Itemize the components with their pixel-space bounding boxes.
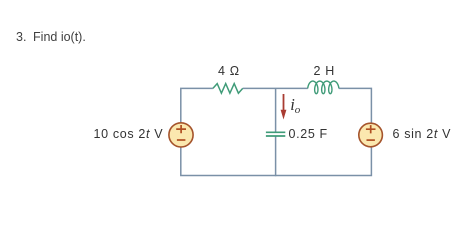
V2 minus sign [367,139,375,141]
capacitor C 0.25F bottom plate [266,135,285,137]
wire: left branch upper + top-left segment to resistor [181,88,213,122]
wire: middle branch upper (top node to capacitor) [275,88,277,131]
label 0.25 F [289,127,328,141]
voltage source V2 circle (6 sin 2t V) [359,123,383,147]
label 4 ohm [218,64,240,78]
V1 minus sign [177,139,186,141]
inductor L 2H coil [308,81,339,94]
capacitor C 0.25F top plate [266,131,285,133]
V2 plus sign [366,125,376,133]
label 2 H [314,64,335,78]
wire: middle branch lower (capacitor to bottom rail) [275,136,277,176]
voltage source V1 circle (10 cos 2t V) [169,123,193,147]
label 10 cos 2t V [94,127,164,141]
current arrow io head [281,110,287,120]
wire: bottom U (left source to bottom rail to right source) [181,147,372,176]
problem text [16,30,86,44]
current arrow io shaft [283,94,285,111]
label 6 sin 2t V [393,127,452,141]
V1 plus sign [176,125,186,133]
label io (arrow current) [290,95,300,115]
wire: top-middle segment (resistor to inductor, through node) [243,87,308,89]
wire: right branch upper + top-right segment to inductor [339,88,372,123]
resistor R 4ohm zigzag [213,84,243,94]
